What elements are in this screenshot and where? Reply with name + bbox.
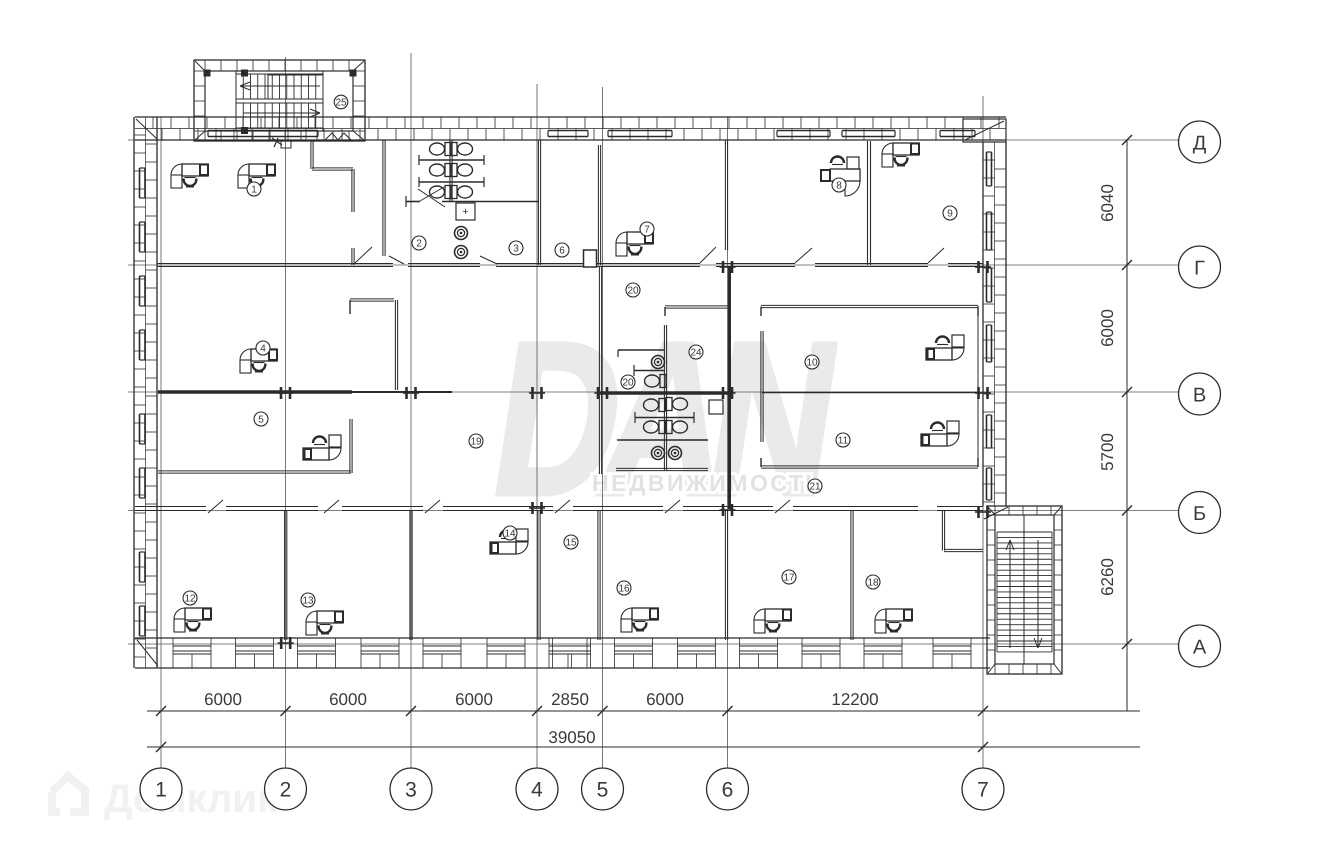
wall rooms 13|14 [410,511,412,640]
axis bubble Б [1179,492,1221,534]
svg-text:10: 10 [806,358,818,369]
wall rooms 17|18 [851,511,853,640]
room 10 top wall [761,305,978,316]
column Г6 [720,261,736,273]
WC1 sink [456,203,475,220]
room circle 9 [943,206,957,220]
svg-text:5: 5 [597,779,609,802]
wall corridor line Б [135,507,983,511]
top-right corner pier [963,119,1006,142]
svg-text:2850: 2850 [551,690,589,709]
room 5 walls [158,419,352,473]
wall axis В middle heavy [599,391,731,394]
top-left corner hatch [136,119,157,139]
svg-text:3: 3 [513,244,519,255]
svg-text:А: А [1193,637,1207,659]
room 11 desk [921,421,959,446]
column В6 [720,387,736,399]
WC2 partition y350 [618,350,665,357]
right wall window bars [987,152,992,500]
room 13 desk [306,611,343,635]
stairwell top-left outer walls [194,60,365,141]
svg-text:Г: Г [1194,258,1205,280]
axis bubble 6 [707,768,749,810]
axis bubble 2 [265,768,307,810]
room circle 15 [564,535,578,549]
WC centre wall x451 [450,140,452,202]
svg-text:6000: 6000 [204,690,242,709]
svg-text:1: 1 [251,185,257,196]
room circle 8 [832,178,846,192]
dimension texts bottom row1 [204,690,879,709]
room circle 4 [256,341,270,355]
svg-text:20: 20 [627,286,639,297]
svg-text:Домклик: Домклик [104,777,278,821]
entrance door marks [272,133,351,148]
room 1 door swing [355,247,372,263]
dimension line right [1122,135,1132,711]
room circle 17 [782,570,796,584]
wall rooms 15|16 [598,511,600,640]
column В7 [975,387,991,399]
exterior wall top [135,117,1006,140]
WC2 top wall [665,306,728,316]
svg-text:18: 18 [867,578,879,589]
svg-text:14: 14 [504,529,516,540]
svg-text:20: 20 [622,378,634,389]
grid axis line 1 [160,117,162,768]
room 16 desk [621,608,658,632]
grid axis line 6 [727,117,729,768]
wall rooms 12|13 [285,511,287,640]
door swings bottom rooms [208,500,1008,519]
svg-text:+: + [462,206,468,218]
column В4 [529,387,545,399]
dimension texts right [1098,184,1117,596]
radiator door block [584,250,597,267]
room 1 desk a [171,164,208,188]
svg-text:17: 17 [783,573,795,584]
WC wall x601 [598,145,600,265]
axis bubble 3 [390,768,432,810]
column Б6 [720,504,736,516]
room circle 14 [503,526,517,540]
room circle 2 [412,236,426,250]
WC1 toilet pair row 2 [430,164,452,177]
dimension text total 39050 [548,728,595,747]
left wall window bars [140,168,146,636]
svg-text:6040: 6040 [1098,184,1117,222]
room circle 12 [183,591,197,605]
room 20 boundary walls [350,299,398,390]
svg-text:4: 4 [531,779,543,802]
svg-text:НЕДВИЖИМОСТЬ: НЕДВИЖИМОСТЬ [592,470,824,496]
room circle 20 [621,375,635,389]
room circle 7 [640,222,654,236]
room 1 right wall [311,140,354,265]
room circle 3 [509,241,523,255]
room circle 5 [254,412,268,426]
svg-text:6: 6 [559,246,565,257]
svg-text:Д: Д [1193,133,1207,155]
svg-text:4: 4 [260,344,266,355]
room 12 desk [174,608,211,632]
room circle 21 [808,479,822,493]
WC2 partition y440 [617,439,708,441]
grid axis line А [128,643,1178,645]
svg-text:5: 5 [258,415,264,426]
room 10 right inner line [977,306,979,465]
room circle 1 [247,182,261,196]
svg-text:12200: 12200 [831,690,878,709]
svg-text:2: 2 [416,239,422,250]
WC2 toilet row1 [645,375,667,388]
wall axis В left heavy [158,390,452,393]
svg-text:25: 25 [335,98,347,109]
svg-text:24: 24 [690,348,702,359]
WC2 floor drain top [652,356,665,369]
grid axis line В [128,391,1178,393]
grid axis line 4 [536,84,538,768]
room 10 left wall [761,331,763,442]
room circle 19 [469,434,483,448]
grid axis line Г [128,264,1178,266]
exterior wall bottom [135,638,990,668]
WC2 toilet row3 [644,421,666,434]
dimension line bottom total [147,742,1140,752]
WC partition y201 [406,196,539,207]
svg-text:2: 2 [280,779,292,802]
axis bubble 5 [582,768,624,810]
column Б7 [975,506,991,518]
wall room 18 right [942,510,983,552]
svg-text:6000: 6000 [646,690,684,709]
axis bubble Д [1179,121,1221,163]
column Б4 [529,502,545,514]
room 7 desk [616,232,653,256]
WC2 partition y370 [634,365,665,376]
room circle 13 [301,593,315,607]
svg-text:12: 12 [184,594,196,605]
svg-text:21: 21 [809,482,821,493]
svg-text:5700: 5700 [1098,433,1117,471]
room 11 bottom wall [761,458,978,468]
room circle 6 [555,243,569,257]
room 5 desk [303,435,341,460]
room 8 desk [821,157,860,197]
grid axis line 3 [410,53,412,768]
WC2 centre wall [664,325,666,470]
exterior wall left [134,117,157,668]
grid axis line Б [128,510,1178,512]
WC2 floor drains bottom [652,447,665,460]
WC2 bottom wall [616,468,708,470]
svg-text:13: 13 [302,596,314,607]
svg-text:6000: 6000 [329,690,367,709]
svg-text:1: 1 [155,779,167,802]
WC1 floor drain 1 [455,227,468,240]
grid axis line 2 [285,57,287,768]
svg-text:7: 7 [977,779,989,802]
room 4 desk [240,349,277,373]
svg-text:6000: 6000 [1098,309,1117,347]
grid axis line 5 [602,87,604,768]
room circle 25 [334,95,348,109]
WC2 partition T y418 [635,412,694,423]
WC partition T y160 [419,155,484,165]
stairwell corner columns [204,70,356,134]
stairwell top-left treads [236,71,323,131]
WC wall x384 [383,140,385,256]
exterior wall right [983,142,1006,506]
svg-text:3: 3 [405,779,417,802]
svg-text:6: 6 [722,779,734,802]
axis bubble 7 [962,768,1004,810]
WC partition T y182 [419,177,484,187]
svg-text:11: 11 [838,436,849,447]
stairwell bottom-right arrows [1006,540,1042,648]
column А2 [278,637,294,649]
column В3 [403,387,419,399]
dimension line bottom first [147,706,1140,716]
room 10 desk [926,335,964,360]
room circle 10 [805,355,819,369]
svg-text:6260: 6260 [1098,558,1117,596]
wall rooms 14|15 [538,511,540,640]
top wall window bars [208,131,975,137]
svg-text:7: 7 [644,225,650,236]
axis bubble Г [1179,246,1221,288]
heavy wall x729 [728,267,731,509]
room circle 20 [626,283,640,297]
axis bubble А [1179,625,1221,667]
WC2 toilet row2 [644,399,666,412]
room 18 desk [875,609,912,633]
watermark Домклик text [104,777,278,821]
svg-text:39050: 39050 [548,728,595,747]
column Г7 [975,261,991,273]
wall rooms 10-11 divider [762,392,978,394]
room 9 desk [882,143,919,167]
grid axis line Д [128,139,1178,141]
room 17 desk [754,609,791,633]
wall rooms 7|8 axis6 [725,140,727,250]
watermark НЕДВИЖИМОСТЬ [592,470,824,496]
room circle 11 [836,433,850,447]
watermark DAN [479,298,843,541]
room circle 18 [866,575,880,589]
axis bubble 1 [140,768,182,810]
WC door swings [389,187,497,264]
svg-text:19: 19 [470,437,482,448]
wall corridor line Г [157,264,983,267]
room 14 desk [490,529,528,554]
svg-text:16: 16 [618,584,630,595]
WC1 floor drain 2 [455,246,468,259]
stairwell top-left arrows [240,82,320,117]
WC1 toilet pair row 1 [430,143,452,156]
svg-text:В: В [1193,385,1206,407]
wall rooms 16|17 [725,511,727,640]
stairwell bottom-right treads [997,515,1052,664]
door swings rooms 7-9 [700,247,944,263]
corridor wall x601 [599,267,601,474]
watermark Домклик logo house icon [52,776,85,812]
column В2 [278,387,294,399]
svg-text:9: 9 [947,209,953,220]
svg-text:Б: Б [1193,503,1206,525]
svg-text:8: 8 [836,181,842,192]
WC2 sink [709,400,723,414]
svg-text:6000: 6000 [455,690,493,709]
stairwell bottom-right walls [987,506,1062,674]
svg-text:15: 15 [565,538,577,549]
room circle 24 [689,345,703,359]
axis bubble В [1179,373,1221,415]
wall rooms 8|9 [868,141,871,265]
grid axis line 7 [982,96,984,768]
WC1 toilet pair row 3 [430,186,452,199]
axis bubble 4 [516,768,558,810]
WC wall x540 axis4 [538,140,540,265]
column В5 [595,387,611,399]
room 1 desk b [238,164,275,188]
room circle 16 [617,581,631,595]
